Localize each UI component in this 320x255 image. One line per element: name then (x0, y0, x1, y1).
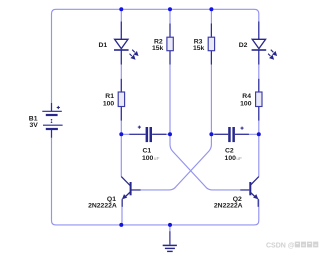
svg-text:15k: 15k (152, 45, 164, 52)
svg-text:R4: R4 (242, 93, 251, 100)
svg-text:100: 100 (240, 100, 252, 107)
svg-text:R1: R1 (105, 93, 114, 100)
svg-text:3V: 3V (29, 122, 38, 129)
svg-text:uF: uF (154, 156, 160, 162)
svg-text:2N2222A: 2N2222A (88, 202, 117, 209)
svg-text:100: 100 (225, 155, 237, 162)
svg-text:CSDN @: CSDN @ (266, 242, 295, 249)
svg-text:100: 100 (142, 155, 154, 162)
svg-text:100: 100 (103, 100, 115, 107)
svg-text:C2: C2 (225, 148, 234, 155)
svg-text:15k: 15k (193, 45, 205, 52)
svg-text:D1: D1 (98, 42, 107, 49)
svg-text:D2: D2 (239, 42, 248, 49)
svg-text:uF: uF (236, 156, 242, 162)
svg-text:C1: C1 (142, 148, 151, 155)
svg-text:2N2222A: 2N2222A (214, 202, 243, 209)
